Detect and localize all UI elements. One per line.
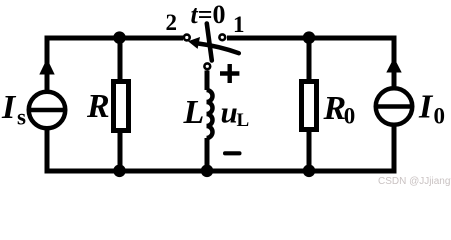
junction dot top R (113, 31, 126, 44)
junction dot top R0 (303, 31, 316, 44)
label minus (223, 151, 242, 155)
svg-text:I: I (418, 89, 434, 126)
svg-text:CSDN @JJjiangfz: CSDN @JJjiangfz (378, 176, 451, 187)
label plus (220, 64, 239, 83)
inductor L (207, 90, 213, 138)
switch blade (207, 24, 212, 61)
svg-text:L: L (237, 110, 250, 131)
svg-text:u: u (221, 95, 238, 130)
wire right upper (I0 branch above circle) (392, 36, 397, 87)
current source Is (29, 59, 66, 129)
svg-text:I: I (1, 89, 17, 126)
switch terminal 2 (left contact circle) (184, 35, 190, 41)
resistor R0 (302, 82, 317, 130)
svg-text:R: R (86, 88, 110, 125)
switch terminal 1 (right contact circle) (219, 34, 225, 40)
svg-text:2: 2 (166, 10, 178, 35)
svg-text:L: L (183, 94, 205, 131)
junction dot bottom R0 (303, 165, 316, 178)
junction dot bottom L (201, 165, 214, 178)
wire bottom (45, 169, 397, 174)
wire inductor-to-bottom (middle branch lower) (205, 138, 210, 174)
wire top-right segment (227, 36, 397, 41)
wire R0 branch (307, 36, 312, 174)
svg-text:0: 0 (434, 104, 446, 129)
svg-text:R: R (323, 90, 347, 127)
current source I0 (376, 58, 413, 125)
switch motion arc (199, 44, 239, 54)
svg-text:0: 0 (344, 103, 356, 128)
resistor R (114, 82, 129, 131)
svg-text:t=0: t=0 (191, 0, 226, 29)
wire left upper (Is branch above circle) (45, 36, 50, 91)
junction dot bottom R (113, 165, 126, 178)
wire right lower (I0 branch below circle) (392, 127, 397, 174)
wire switch-to-inductor (middle branch upper) (205, 71, 210, 91)
wire top-left segment (45, 36, 184, 41)
switch motion arrowhead (188, 37, 200, 49)
wire R branch (118, 36, 123, 174)
switch pivot contact circle (204, 63, 210, 69)
wire left lower (Is branch below circle) (45, 130, 50, 174)
svg-text:s: s (17, 105, 26, 130)
svg-text:1: 1 (233, 12, 245, 37)
